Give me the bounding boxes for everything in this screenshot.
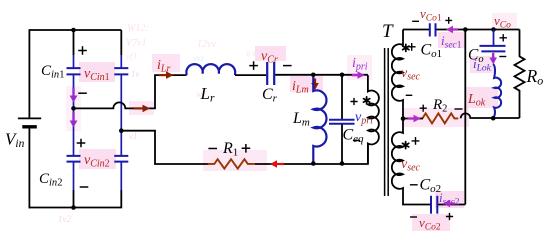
node C_eq top [340,73,345,78]
highlight i_Lok [470,56,495,73]
secondary winding bottom [392,119,430,205]
wire L_r to C_r [235,74,266,76]
minus C_r [283,65,292,67]
highlight branch arrows [66,86,81,131]
highlight v_Co2 [412,214,450,231]
svg-text:Cin2: Cin2 [39,171,62,189]
node A-top [71,28,76,33]
highlight i_Lr [152,54,180,72]
svg-text:Lm: Lm [292,110,310,129]
minus secondary top [406,94,413,96]
plus secondary bottom [412,137,420,145]
svg-text:Vin: Vin [5,130,25,151]
wire bottom middle [160,144,368,165]
highlight R1 band [203,150,267,171]
svg-text:v(1: v(1 [126,51,138,61]
star secondary bottom [403,142,409,149]
capacitor C_eq plates [329,120,355,124]
capacitor branch B stem blue parts [120,55,122,190]
highlight i_sec2 [435,191,464,208]
svg-text:V7v1: V7v1 [126,38,147,49]
minus C_in1 [78,92,87,94]
minus v_Co1 [412,20,419,22]
capacitor C_o2 plates [431,196,437,214]
highlight v_Cin2 [79,149,116,169]
arrow R2 right [408,117,414,119]
svg-text:12vv: 12vv [197,39,216,50]
node L_ok bottom [491,116,496,121]
svg-text:Co2: Co2 [420,177,442,196]
minus secondary bottom [410,184,418,186]
resistor R2 [419,113,459,123]
minus C_o [499,56,506,58]
arrow i_sec1 left [452,28,458,30]
arrow i_Lm down [314,79,316,84]
vertical rail right [464,30,466,205]
node rail top [463,27,468,32]
capacitor B lower plates [114,156,128,162]
plus secondary top [408,43,416,51]
node A-bottom [71,205,76,210]
inductor L_m [313,77,326,164]
resistor R1 [208,159,255,168]
arrow i_pri [352,74,358,76]
capacitor C_in2 plates [67,156,81,162]
star primary [364,97,370,104]
plus R2 [420,105,427,112]
node B-mid [119,128,124,133]
svg-text:vv1: vv1 [193,54,204,63]
wire bottom right [438,204,465,206]
svg-text:vsec: vsec [401,66,421,83]
minus R2 [455,108,463,110]
node C_eq bottom [340,161,345,166]
highlight L_ok [465,87,498,108]
arrow purple down lower [72,113,74,122]
battery V_in long plate [18,117,41,119]
capacitor C_in1 plates [67,68,81,74]
resistor R_o [515,30,525,119]
wire secondary top rail [403,29,520,31]
svg-text:T: T [382,21,394,42]
svg-text:1v2: 1v2 [58,214,71,224]
svg-text:R1: R1 [222,140,238,159]
highlight i_Lm [290,76,323,92]
capacitor branch A stem black parts [73,30,75,208]
transformer primary winding [368,75,379,163]
capacitor C_o stem [493,30,495,46]
wire left rail lower [28,129,30,209]
arrow R1 wire left [276,163,284,165]
wire left rail upper [28,29,30,117]
node A-mid [71,106,76,111]
wire bottom-left rail [29,207,123,209]
arrow i_Lok down [492,53,494,58]
wire top-left [29,29,121,31]
secondary winding top [392,30,403,119]
capacitor B upper plates [114,68,128,74]
capacitor C_r plates [267,62,274,85]
svg-text:v.v: v.v [246,48,256,58]
node secondary middle [401,116,406,121]
star secondary top [403,44,409,51]
plus C_o [500,34,507,41]
highlight v_Cr [255,46,286,61]
plus v_Co1 [445,17,452,24]
svg-text:Cin1: Cin1 [41,63,64,81]
capacitor C_eq stem upper [341,75,343,119]
highlight v_Cin1 [79,62,115,82]
capacitor C_eq stem lower [341,125,343,164]
capacitor C_o1 plates [430,23,436,36]
wire R2 left [403,118,423,120]
highlight i_pri [347,55,372,80]
plus R1 [242,144,251,153]
wire R_o bottom [461,113,520,118]
plus v_pri [350,98,357,105]
arrow i_Lr [159,74,167,76]
node L_m bottom [311,161,316,166]
highlight v_Co [492,13,517,28]
inductor L_ok [493,64,501,118]
svg-text:Cr: Cr [262,86,278,105]
arrow rail right [134,107,144,109]
minus v_pri [353,140,360,142]
minus C_in2 [80,186,89,188]
svg-text:Ceq: Ceq [343,127,365,146]
svg-text:W12:: W12: [127,23,149,34]
svg-text:Ro: Ro [526,66,544,88]
svg-text:Lr: Lr [200,84,215,105]
svg-text:v1: v1 [129,131,138,141]
arrow purple down upper [72,88,74,97]
transformer core lines [385,48,389,196]
plus C_in1 [78,46,87,55]
inductor L_r [186,64,235,75]
svg-text:vsec: vsec [401,157,421,174]
svg-text:1v: 1v [131,69,140,79]
svg-text:vCo1: vCo1 [420,6,442,24]
plus C_in2 [77,139,86,148]
plus v_Co2 [446,213,453,220]
wire middle rail with hop [74,75,187,108]
highlight R2 band [403,108,469,127]
capacitor branch B stem black parts [120,30,122,208]
minus R1 [208,148,217,150]
wire C_r to primary [275,74,368,76]
highlight rail arrow [129,101,154,115]
highlight i_sec1 [438,32,466,48]
minus v_Co2 [410,216,417,218]
capacitor branch A stem blue parts [73,55,75,190]
svg-text:R2: R2 [432,97,447,115]
battery V_in short plate [22,125,37,128]
plus C_r [249,61,258,70]
capacitor C_o plates [480,46,506,52]
node C_o top [491,27,496,32]
node L_m top [311,73,316,78]
arrow i_sec2 left [449,202,455,204]
wire jog from node B to R1 wire [121,131,160,164]
